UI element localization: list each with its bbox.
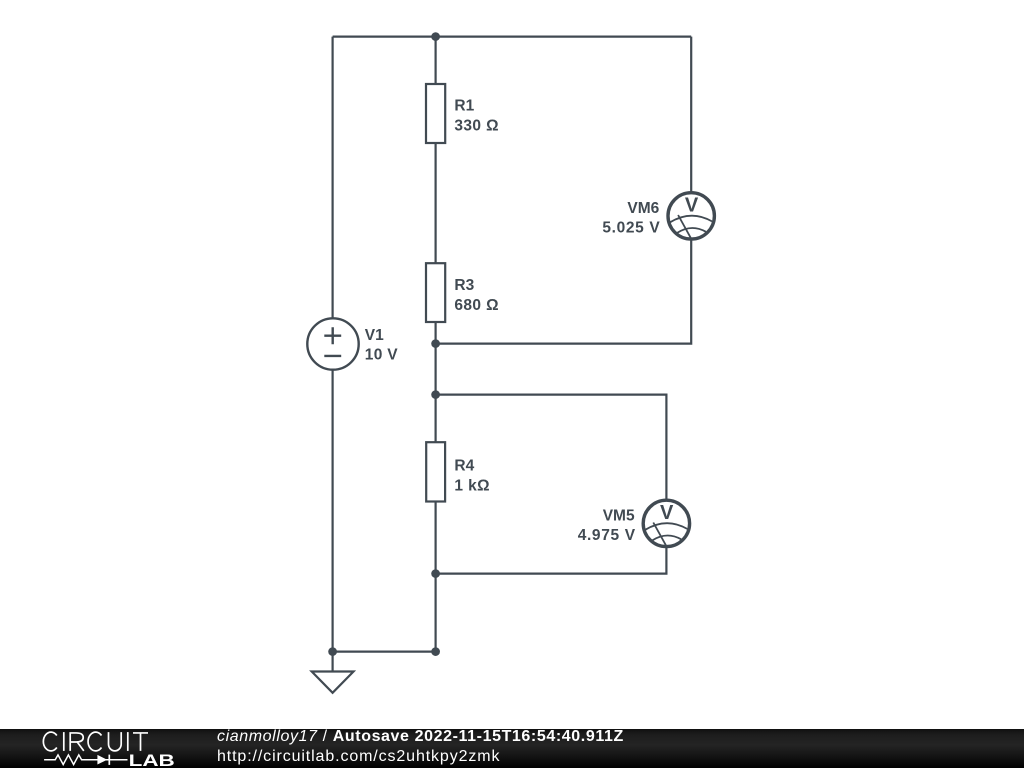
node bottom-left junction <box>328 647 337 656</box>
wire bottom rail <box>333 650 436 652</box>
svg-text:1 kΩ: 1 kΩ <box>454 477 490 494</box>
node B junction <box>431 390 440 399</box>
node top junction <box>431 32 440 41</box>
wire node B to VM5 pin 1 <box>436 395 667 500</box>
voltmeter VM5 <box>643 500 689 546</box>
resistor R1 <box>426 84 445 143</box>
svg-text:4.975 V: 4.975 V <box>578 527 636 544</box>
wire R3 pin 2 to node B through node A <box>435 322 437 442</box>
wire R1 pin 2 to R3 pin 1 <box>435 143 437 263</box>
node C junction <box>431 569 440 578</box>
svg-text:R3: R3 <box>454 277 474 294</box>
wire VM6 pin 2 return to node A <box>436 240 692 344</box>
wire VM6 branch top (top rail to VM6 pin 1) <box>690 37 692 192</box>
voltmeter VM6 <box>668 193 714 239</box>
wire ground stub <box>332 652 334 672</box>
logo word CIRCUIT <box>43 732 148 751</box>
svg-text:V1: V1 <box>365 327 384 344</box>
resistor R4 <box>426 442 445 501</box>
wire top rail <box>333 35 692 37</box>
svg-text:5.025 V: 5.025 V <box>602 220 660 237</box>
svg-text:R1: R1 <box>454 98 474 115</box>
svg-text:R4: R4 <box>454 457 474 474</box>
logo resistor-diode glyph <box>44 755 127 765</box>
svg-text:VM6: VM6 <box>627 200 659 217</box>
resistor R3 <box>426 263 445 322</box>
wire VM5 pin 2 return to node C <box>436 547 667 574</box>
svg-text:680 Ω: 680 Ω <box>454 297 499 314</box>
node bottom-right junction <box>431 647 440 656</box>
wire V1 minus terminal to bottom rail <box>332 370 334 652</box>
footer bar <box>0 729 1024 768</box>
node A junction <box>431 339 440 348</box>
svg-text:10 V: 10 V <box>365 346 398 363</box>
svg-text:330 Ω: 330 Ω <box>454 117 499 134</box>
wire top junction to R1 pin 1 <box>435 37 437 84</box>
voltage source V1 <box>307 318 358 369</box>
wire R4 pin 2 to bottom rail <box>435 501 437 651</box>
wire left column (top rail to V1 plus terminal) <box>332 37 334 319</box>
ground <box>312 672 354 693</box>
svg-text:LAB: LAB <box>129 752 175 768</box>
svg-text:VM5: VM5 <box>603 508 635 525</box>
